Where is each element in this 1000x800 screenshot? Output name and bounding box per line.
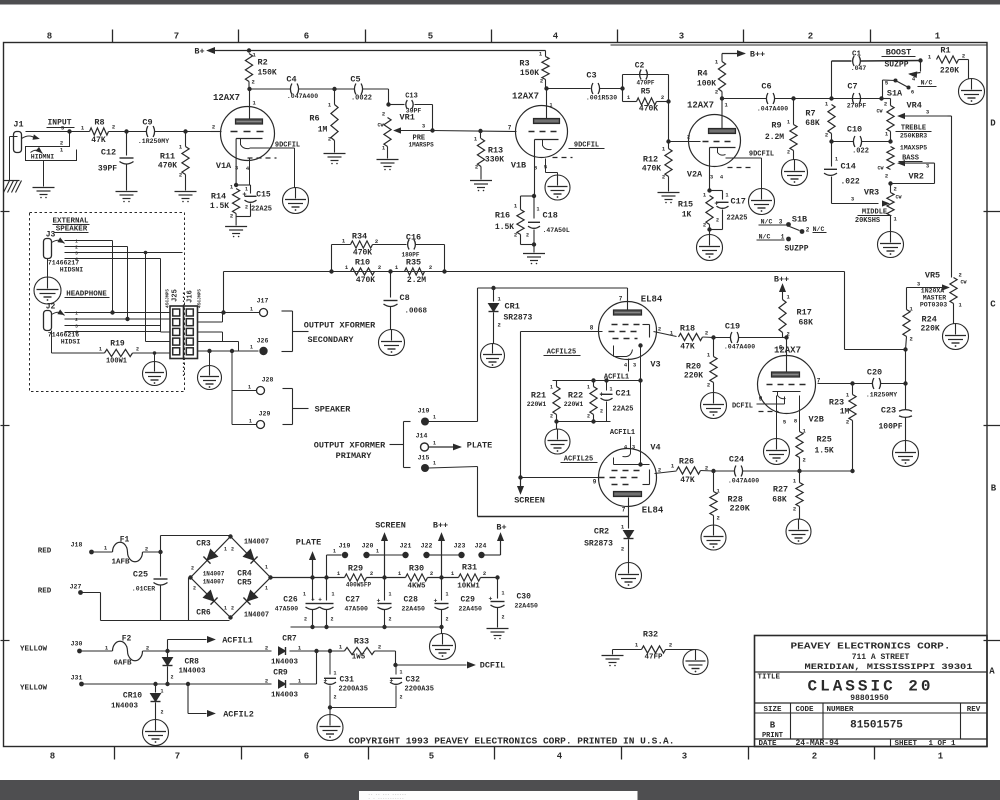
svg-text:NUMBER: NUMBER bbox=[827, 706, 855, 714]
resistor R15 bbox=[707, 188, 711, 192]
diode CR10 bbox=[155, 684, 157, 693]
wire VR1 wiper to V1B grid bbox=[395, 130, 433, 132]
svg-text:10KW1: 10KW1 bbox=[457, 583, 480, 591]
wire V4 cathode bracket bbox=[613, 458, 615, 465]
svg-text:1N4007: 1N4007 bbox=[244, 539, 269, 547]
svg-text:2: 2 bbox=[328, 136, 331, 143]
svg-text:7: 7 bbox=[508, 125, 512, 132]
svg-text:CW: CW bbox=[895, 195, 901, 201]
svg-text:.0022: .0022 bbox=[351, 95, 372, 103]
svg-text:SCREEN: SCREEN bbox=[375, 521, 406, 531]
potentiometer VR2 BASS bbox=[887, 147, 894, 170]
capacitor C30 bbox=[495, 575, 499, 579]
svg-text:6: 6 bbox=[304, 32, 309, 42]
svg-text:6AFB: 6AFB bbox=[113, 660, 132, 668]
svg-text:2: 2 bbox=[245, 205, 248, 211]
resistor R29 bbox=[345, 574, 367, 581]
svg-text:C12: C12 bbox=[101, 148, 116, 158]
wire R8 to C9 bbox=[109, 131, 147, 133]
svg-text:R17: R17 bbox=[797, 308, 812, 318]
svg-text:1: 1 bbox=[265, 586, 268, 592]
svg-text:R25: R25 bbox=[817, 435, 832, 445]
svg-text:C13: C13 bbox=[405, 93, 418, 101]
svg-text:2: 2 bbox=[526, 233, 529, 239]
wire bridge left to return bbox=[188, 578, 190, 621]
svg-text:C23: C23 bbox=[881, 406, 896, 416]
svg-text:J20: J20 bbox=[362, 543, 374, 550]
ground circle under connector bbox=[209, 351, 211, 366]
ground circle V2B cathode bbox=[764, 439, 790, 465]
svg-text:HIDSI: HIDSI bbox=[61, 339, 81, 346]
capacitor C12 bbox=[126, 132, 128, 156]
svg-text:J24: J24 bbox=[475, 543, 487, 550]
svg-text:C2: C2 bbox=[635, 62, 645, 71]
svg-text:J14: J14 bbox=[416, 433, 428, 440]
resistor R35 bbox=[388, 269, 392, 273]
svg-text:8: 8 bbox=[50, 752, 55, 762]
svg-text:A: A bbox=[989, 667, 995, 677]
svg-text:CODE: CODE bbox=[795, 706, 814, 714]
svg-text:.0068: .0068 bbox=[405, 308, 428, 316]
capacitor C5 bbox=[354, 84, 356, 95]
svg-text:1: 1 bbox=[835, 157, 838, 163]
svg-text:R15: R15 bbox=[678, 200, 693, 210]
svg-text:8: 8 bbox=[590, 325, 594, 332]
svg-text:2: 2 bbox=[707, 382, 710, 389]
heater lead V2A to ground bbox=[726, 157, 762, 159]
svg-text:7: 7 bbox=[619, 296, 623, 303]
frame top doubled line bbox=[611, 44, 988, 46]
wire OT secondary long run bbox=[224, 271, 845, 273]
wire V2A grid bbox=[666, 139, 670, 143]
svg-text:.047A400: .047A400 bbox=[757, 106, 788, 113]
svg-text:1: 1 bbox=[938, 752, 944, 762]
parallel branch R34 C16 bbox=[331, 245, 333, 272]
capacitor C28 bbox=[382, 575, 386, 579]
svg-text:1M: 1M bbox=[840, 408, 850, 417]
right ruler ticks bbox=[984, 211, 1000, 213]
svg-text:2: 2 bbox=[446, 617, 449, 623]
svg-text:V2A: V2A bbox=[687, 170, 703, 180]
svg-text:OUTPUT XFORMER: OUTPUT XFORMER bbox=[304, 321, 376, 331]
svg-text:5: 5 bbox=[428, 32, 433, 42]
svg-text:EL84: EL84 bbox=[642, 506, 664, 516]
svg-text:V2B: V2B bbox=[809, 415, 824, 425]
capacitor C23 bbox=[905, 350, 907, 384]
capacitor C9 bbox=[146, 126, 148, 137]
svg-text:1: 1 bbox=[376, 549, 379, 555]
svg-text:400W5FP: 400W5FP bbox=[346, 582, 372, 589]
resistor R5 bbox=[623, 101, 637, 103]
svg-text:1: 1 bbox=[75, 311, 78, 317]
svg-text:6: 6 bbox=[304, 752, 309, 762]
wire V4 grid bbox=[521, 477, 599, 479]
svg-text:CR3: CR3 bbox=[196, 540, 211, 549]
svg-text:J28: J28 bbox=[262, 377, 274, 384]
svg-text:6: 6 bbox=[779, 345, 783, 352]
svg-text:2: 2 bbox=[136, 347, 139, 353]
resistor R34 bbox=[351, 241, 373, 248]
svg-text:47A500: 47A500 bbox=[345, 606, 369, 613]
ground circle under VR5 bbox=[943, 324, 969, 350]
svg-text:22A450: 22A450 bbox=[515, 603, 539, 610]
svg-text:22A25: 22A25 bbox=[613, 406, 634, 414]
svg-text:1MARSPS: 1MARSPS bbox=[409, 142, 435, 149]
capacitor C31 bbox=[329, 651, 331, 675]
svg-text:1: 1 bbox=[303, 592, 306, 598]
svg-text:180PF: 180PF bbox=[401, 252, 419, 259]
svg-text:J18: J18 bbox=[71, 542, 83, 549]
svg-text:1.5K: 1.5K bbox=[495, 223, 514, 232]
diode CR3 bbox=[203, 549, 217, 563]
svg-text:1N4007: 1N4007 bbox=[203, 579, 225, 586]
svg-text:7: 7 bbox=[175, 752, 180, 762]
wire bus2 bbox=[557, 421, 611, 423]
svg-text:ACFIL2: ACFIL2 bbox=[223, 710, 254, 720]
svg-text:5: 5 bbox=[429, 752, 434, 762]
ground under R12 bbox=[658, 192, 680, 194]
svg-text:45CJMP5: 45CJMP5 bbox=[165, 289, 171, 308]
resistor R31 bbox=[459, 574, 481, 581]
svg-text:SIZE: SIZE bbox=[763, 706, 782, 714]
svg-text:J31: J31 bbox=[71, 675, 83, 682]
svg-text:3: 3 bbox=[679, 32, 684, 42]
svg-text:HIDMNI: HIDMNI bbox=[31, 154, 55, 161]
wire OT primary to V3 plate bbox=[478, 287, 628, 289]
svg-text:270PF: 270PF bbox=[847, 103, 867, 110]
svg-text:R13: R13 bbox=[488, 146, 503, 156]
svg-text:R3: R3 bbox=[519, 59, 529, 69]
svg-text:CR9: CR9 bbox=[273, 669, 288, 678]
svg-text:1N4003: 1N4003 bbox=[179, 668, 207, 676]
resistor R25 bbox=[799, 396, 801, 432]
svg-text:POT0303: POT0303 bbox=[920, 302, 947, 309]
svg-text:7: 7 bbox=[174, 32, 179, 42]
svg-text:2: 2 bbox=[430, 570, 433, 577]
bracket SPEAKER bbox=[292, 389, 294, 425]
capacitor C13 bbox=[389, 104, 405, 106]
svg-text:220K: 220K bbox=[940, 67, 959, 76]
svg-text:47A500: 47A500 bbox=[275, 606, 299, 613]
svg-text:PLATE: PLATE bbox=[296, 538, 322, 548]
svg-text:2.2M: 2.2M bbox=[407, 276, 426, 285]
bridge rectifier CR3 CR4 CR5 CR6 bbox=[191, 537, 271, 618]
svg-text:CR8: CR8 bbox=[185, 658, 200, 667]
resistor R26 bbox=[655, 471, 677, 474]
svg-text:C25: C25 bbox=[133, 570, 148, 580]
capacitor C20 bbox=[872, 378, 874, 389]
svg-text:PLATE: PLATE bbox=[467, 441, 493, 451]
svg-text:1: 1 bbox=[250, 345, 253, 351]
svg-text:12AX7: 12AX7 bbox=[687, 101, 714, 111]
svg-text:.047: .047 bbox=[851, 65, 867, 72]
svg-text:PRINT: PRINT bbox=[762, 732, 783, 740]
svg-text:V4: V4 bbox=[650, 443, 660, 453]
svg-text:2: 2 bbox=[715, 89, 718, 96]
svg-text:C27: C27 bbox=[346, 596, 361, 605]
svg-text:39PF: 39PF bbox=[98, 165, 117, 174]
svg-text:R26: R26 bbox=[679, 457, 694, 467]
switch S1A bbox=[920, 61, 922, 72]
potentiometer VR4 TREBLE bbox=[887, 106, 894, 132]
resistor R1 bbox=[918, 58, 922, 62]
svg-text:24-MAR-94: 24-MAR-94 bbox=[796, 739, 839, 748]
svg-text:3: 3 bbox=[75, 251, 78, 257]
svg-text:.022: .022 bbox=[852, 148, 869, 156]
svg-text:CR6: CR6 bbox=[196, 609, 211, 618]
diode CR8 bbox=[167, 651, 169, 658]
ground under R32 left bbox=[602, 655, 624, 657]
svg-text:J17: J17 bbox=[257, 298, 269, 305]
svg-text:2: 2 bbox=[621, 546, 624, 553]
svg-text:PRIMARY: PRIMARY bbox=[336, 451, 373, 461]
svg-text:R1: R1 bbox=[940, 46, 950, 56]
svg-text:2: 2 bbox=[687, 134, 690, 141]
resistor R28 bbox=[713, 471, 715, 492]
svg-text:S1A: S1A bbox=[887, 89, 903, 99]
svg-text:100W1: 100W1 bbox=[106, 358, 127, 366]
wire V4 heater pin4 bbox=[630, 437, 632, 454]
svg-text:3: 3 bbox=[779, 219, 783, 226]
capacitor C7 bbox=[852, 93, 854, 104]
diode CR1 bbox=[491, 286, 495, 290]
svg-text:J29: J29 bbox=[259, 411, 271, 418]
svg-text:J27: J27 bbox=[70, 584, 82, 591]
svg-text:ACFIL1: ACFIL1 bbox=[222, 636, 253, 646]
svg-text:R16: R16 bbox=[495, 211, 510, 221]
wire F1 to bridge top bbox=[160, 536, 162, 553]
svg-text:2: 2 bbox=[661, 94, 664, 101]
svg-text:B++: B++ bbox=[774, 275, 789, 285]
svg-text:VR5: VR5 bbox=[925, 271, 940, 281]
ground under R6 bbox=[324, 153, 346, 155]
svg-text:COPYRIGHT 1993 PEAVEY ELECTRON: COPYRIGHT 1993 PEAVEY ELECTRONICS CORP. … bbox=[349, 737, 675, 747]
jack switch contacts HIDMNI bbox=[26, 132, 77, 161]
svg-text:EL84: EL84 bbox=[641, 295, 663, 305]
svg-text:.001R530: .001R530 bbox=[586, 95, 617, 102]
resistor R11 bbox=[185, 132, 187, 147]
svg-text:2: 2 bbox=[475, 164, 478, 171]
svg-text:J1: J1 bbox=[13, 120, 23, 130]
svg-text:RED: RED bbox=[38, 588, 52, 596]
svg-text:DATE: DATE bbox=[759, 740, 778, 748]
page top scanner band bbox=[0, 0, 1000, 5]
ground circle under headphone net bbox=[154, 353, 156, 362]
svg-text:22A450: 22A450 bbox=[402, 606, 426, 613]
svg-text:CW: CW bbox=[377, 123, 383, 129]
svg-text:47K: 47K bbox=[680, 343, 695, 352]
ground circle under R27 bbox=[786, 519, 811, 544]
boost branch wire bbox=[831, 61, 833, 99]
svg-text:1AFB: 1AFB bbox=[111, 559, 130, 567]
resistor R33 bbox=[345, 647, 375, 654]
svg-text:MASTER: MASTER bbox=[923, 295, 947, 302]
svg-text:470K: 470K bbox=[353, 249, 372, 258]
svg-text:9: 9 bbox=[759, 396, 763, 403]
node V1B cathode to R16/C18 bbox=[532, 194, 536, 198]
ground circle V1B cathode bbox=[545, 175, 570, 200]
wire B+ rail with R29 R30 R31 bbox=[271, 577, 345, 579]
ground circle under CR10 bbox=[143, 720, 169, 746]
next page sliver in bottom band bbox=[359, 791, 638, 800]
svg-text:1: 1 bbox=[99, 347, 102, 353]
svg-text:1M: 1M bbox=[318, 126, 328, 135]
ground circle under C31 C32 bbox=[317, 715, 343, 741]
svg-text:2: 2 bbox=[265, 678, 268, 685]
resistor R8 bbox=[90, 128, 109, 135]
capacitor C8 bbox=[390, 272, 392, 298]
svg-text:1N20XA: 1N20XA bbox=[921, 288, 945, 295]
svg-text:220K: 220K bbox=[730, 504, 751, 514]
svg-text:12AX7: 12AX7 bbox=[512, 92, 539, 102]
svg-text:47K: 47K bbox=[91, 136, 106, 145]
svg-text:2: 2 bbox=[231, 547, 234, 553]
svg-text:6: 6 bbox=[911, 89, 914, 96]
wire C6 row bbox=[720, 96, 724, 100]
svg-text:2: 2 bbox=[265, 645, 268, 652]
svg-text:+ +: + + bbox=[311, 597, 322, 604]
svg-text:4: 4 bbox=[553, 32, 559, 42]
capacitor C25 bbox=[160, 552, 162, 577]
svg-text:4KW5: 4KW5 bbox=[407, 583, 426, 591]
svg-text:98801950: 98801950 bbox=[850, 694, 889, 703]
capacitor C6 bbox=[766, 93, 768, 104]
page bottom scanner band bbox=[0, 780, 1000, 800]
svg-text:711 A STREET: 711 A STREET bbox=[852, 653, 910, 662]
svg-text:330K: 330K bbox=[485, 156, 504, 165]
potentiometer VR3 MIDDLE bbox=[888, 181, 892, 185]
svg-text:N/C: N/C bbox=[759, 234, 771, 241]
left ruler ticks bbox=[1, 211, 10, 213]
capacitor C27 bbox=[324, 575, 328, 579]
wire to CR7 bbox=[168, 650, 272, 652]
svg-text:81501575: 81501575 bbox=[850, 720, 903, 732]
svg-text:2: 2 bbox=[540, 78, 543, 85]
svg-text:3: 3 bbox=[682, 752, 687, 762]
svg-text:R27: R27 bbox=[773, 485, 788, 495]
svg-text:2: 2 bbox=[846, 419, 849, 426]
svg-text:1N4007: 1N4007 bbox=[244, 612, 269, 620]
svg-text:2: 2 bbox=[212, 124, 215, 131]
label ACFIL1 at V3 pin4 bbox=[628, 359, 630, 372]
resistor R7 bbox=[829, 96, 833, 100]
svg-text:2: 2 bbox=[716, 218, 719, 224]
svg-text:DCFIL: DCFIL bbox=[480, 661, 506, 671]
wire V1A plate to C4 bbox=[247, 87, 251, 91]
svg-text:C3: C3 bbox=[586, 71, 596, 81]
svg-text:250KBR3: 250KBR3 bbox=[900, 133, 927, 140]
svg-text:CR5: CR5 bbox=[237, 579, 252, 588]
svg-text:2: 2 bbox=[910, 336, 913, 343]
diode CR6 bbox=[203, 590, 217, 604]
svg-text:1: 1 bbox=[433, 415, 436, 421]
svg-text:1.5K: 1.5K bbox=[210, 202, 229, 211]
svg-text:1W5: 1W5 bbox=[352, 654, 366, 662]
svg-text:22A25: 22A25 bbox=[251, 206, 272, 214]
svg-text:2: 2 bbox=[498, 322, 501, 329]
capacitor C1 bbox=[853, 56, 855, 66]
svg-text:SCREEN: SCREEN bbox=[514, 496, 545, 506]
svg-text:.1R250MY: .1R250MY bbox=[866, 392, 897, 399]
resistor R30 bbox=[406, 574, 428, 581]
svg-text:2: 2 bbox=[600, 409, 603, 415]
svg-text:2: 2 bbox=[959, 272, 962, 279]
svg-text:C20: C20 bbox=[867, 368, 882, 378]
svg-text:J22: J22 bbox=[421, 543, 433, 550]
svg-text:.1R250MY: .1R250MY bbox=[138, 138, 169, 145]
svg-text:1.5K: 1.5K bbox=[815, 447, 834, 456]
ground under R14 bbox=[225, 226, 247, 228]
svg-text:470K: 470K bbox=[639, 105, 658, 114]
ground under input switch bbox=[43, 161, 45, 187]
wire input to R8 bbox=[26, 131, 90, 133]
svg-text:.047A400: .047A400 bbox=[728, 478, 759, 485]
connector right-side wires bbox=[198, 312, 260, 314]
svg-text:1: 1 bbox=[587, 385, 590, 391]
svg-text:R20: R20 bbox=[686, 362, 701, 372]
svg-text:2: 2 bbox=[304, 617, 307, 623]
svg-text:.01CER: .01CER bbox=[132, 586, 156, 593]
resistor R21 bbox=[556, 381, 558, 387]
svg-text:1: 1 bbox=[75, 239, 78, 245]
svg-text:1: 1 bbox=[265, 565, 268, 571]
svg-text:1N4003: 1N4003 bbox=[271, 659, 299, 667]
svg-text:1: 1 bbox=[250, 307, 253, 313]
parallel network C2 R5 bbox=[620, 86, 624, 90]
svg-text:68K: 68K bbox=[805, 119, 820, 128]
wire V3 grid bbox=[521, 331, 603, 333]
svg-text:2: 2 bbox=[334, 695, 337, 701]
heater lead V1B to ground bbox=[545, 159, 547, 173]
svg-text:470K: 470K bbox=[356, 276, 375, 285]
diode CR4 CR5 bbox=[243, 549, 257, 563]
svg-text:SPEAKER: SPEAKER bbox=[315, 405, 352, 415]
svg-text:1: 1 bbox=[610, 387, 613, 393]
svg-text:150K: 150K bbox=[258, 69, 277, 78]
svg-text:C7: C7 bbox=[847, 82, 857, 92]
svg-text:1 OF 1: 1 OF 1 bbox=[929, 740, 957, 748]
resistor R22 bbox=[593, 381, 595, 387]
capacitor C16 bbox=[408, 240, 410, 250]
capacitor C17 bbox=[710, 190, 723, 192]
svg-text:2: 2 bbox=[252, 79, 255, 86]
svg-text:2: 2 bbox=[808, 32, 813, 42]
capacitor C4 bbox=[290, 84, 292, 95]
svg-text:R11: R11 bbox=[160, 152, 175, 162]
resistor R12 bbox=[668, 142, 670, 149]
svg-text:CW: CW bbox=[961, 280, 967, 286]
svg-text:2: 2 bbox=[703, 222, 706, 229]
svg-text:1: 1 bbox=[400, 670, 403, 676]
wire VR4 pin3 to VR5 bbox=[948, 115, 952, 117]
svg-text:1: 1 bbox=[433, 461, 436, 467]
svg-text:2: 2 bbox=[191, 566, 194, 572]
svg-text:2: 2 bbox=[75, 317, 78, 323]
svg-text:C1: C1 bbox=[852, 51, 862, 59]
svg-text:C6: C6 bbox=[761, 82, 771, 92]
svg-text:2: 2 bbox=[179, 172, 182, 179]
svg-text:1: 1 bbox=[334, 671, 337, 677]
svg-text:J15: J15 bbox=[418, 455, 430, 462]
wire V2B cathode to ground bbox=[776, 396, 778, 439]
ground circle under CR2 bbox=[616, 563, 642, 589]
wire V4 heater pin3 from bus bbox=[640, 382, 642, 465]
svg-text:220W1: 220W1 bbox=[564, 401, 584, 408]
resistor R6 bbox=[332, 87, 336, 91]
svg-text:HIDSNI: HIDSNI bbox=[60, 267, 84, 274]
svg-text:R33: R33 bbox=[354, 637, 369, 647]
svg-text:1N4003: 1N4003 bbox=[111, 703, 139, 711]
